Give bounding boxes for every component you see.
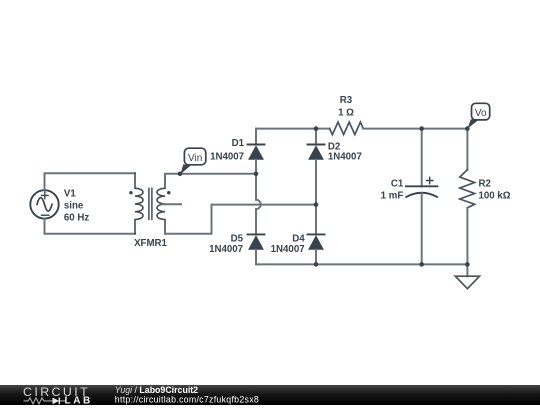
junction node Vin attach: [178, 172, 183, 177]
junction node right column bottom: [314, 262, 319, 267]
svg-text:D1: D1: [232, 138, 245, 149]
bridge top rail: [256, 128, 316, 130]
wire C1 top: [421, 129, 423, 187]
wire mid horizontal to right column: [212, 204, 317, 206]
wire R3 to Vo node: [363, 128, 467, 130]
center tap stub: [162, 203, 181, 205]
logo diode: [49, 398, 67, 405]
junction node right column mid: [314, 202, 319, 207]
wire secondary top to bridge: [165, 173, 256, 175]
node flag Vin: [180, 148, 205, 174]
resistor R3: [330, 122, 364, 135]
svg-text:V1: V1: [64, 188, 76, 199]
svg-text:Vo: Vo: [475, 108, 487, 119]
svg-text:100 kΩ: 100 kΩ: [479, 191, 511, 202]
svg-text:sine: sine: [64, 200, 84, 211]
svg-text:Vin: Vin: [188, 153, 202, 164]
logo resistor zigzag: [24, 398, 49, 404]
wire R2 top: [466, 129, 468, 170]
svg-text:1N4007: 1N4007: [328, 152, 362, 163]
diode D4: [308, 234, 325, 264]
bridge left column upper: [255, 129, 257, 145]
junction node C1 top: [419, 126, 424, 131]
svg-text:Yugi / Labo9Circuit2: Yugi / Labo9Circuit2: [115, 385, 198, 395]
svg-text:1 mF: 1 mF: [381, 190, 404, 201]
bottom rail: [256, 263, 467, 265]
voltage source V1: [30, 190, 58, 218]
wire R2 bottom: [466, 208, 468, 276]
svg-text:1 Ω: 1 Ω: [338, 108, 354, 119]
wire right column mid: [315, 205, 317, 235]
junction node top rail right column: [314, 126, 319, 131]
footer bar: [0, 385, 540, 405]
transformer XFMR1: [129, 173, 181, 234]
svg-text:XFMR1: XFMR1: [134, 238, 167, 249]
diode D5: [248, 234, 265, 264]
svg-text:LAB: LAB: [65, 396, 93, 405]
wire left column with hop: [256, 174, 261, 235]
svg-text:1N4007: 1N4007: [271, 244, 305, 255]
svg-text:R3: R3: [340, 95, 353, 106]
junction node C1 bottom: [419, 262, 424, 267]
svg-text:C1: C1: [391, 178, 404, 189]
junction node left column top: [254, 172, 259, 177]
ground: [455, 276, 479, 289]
svg-text:D4: D4: [292, 234, 305, 245]
bridge right column upper: [315, 129, 317, 145]
svg-text:1N4007: 1N4007: [209, 244, 243, 255]
svg-text:R2: R2: [479, 179, 491, 190]
svg-text:D5: D5: [231, 234, 244, 245]
svg-text:http://circuitlab.com/c7zfukqf: http://circuitlab.com/c7zfukqfb2sx8: [115, 394, 259, 404]
diode D2: [308, 145, 325, 205]
resistor R2: [460, 170, 475, 208]
wire V1 top: [45, 173, 136, 190]
wire secondary bottom detour: [165, 205, 212, 234]
wire top rail to R3: [316, 128, 330, 130]
svg-text:1N4007: 1N4007: [210, 151, 244, 162]
wire V1 bottom: [45, 219, 136, 234]
capacitor C1: [406, 177, 438, 264]
diode D1: [248, 145, 265, 174]
junction node R2 bottom: [465, 262, 470, 267]
node flag Vo: [468, 103, 490, 128]
svg-text:60 Hz: 60 Hz: [64, 212, 89, 223]
junction node Vo: [465, 126, 470, 131]
